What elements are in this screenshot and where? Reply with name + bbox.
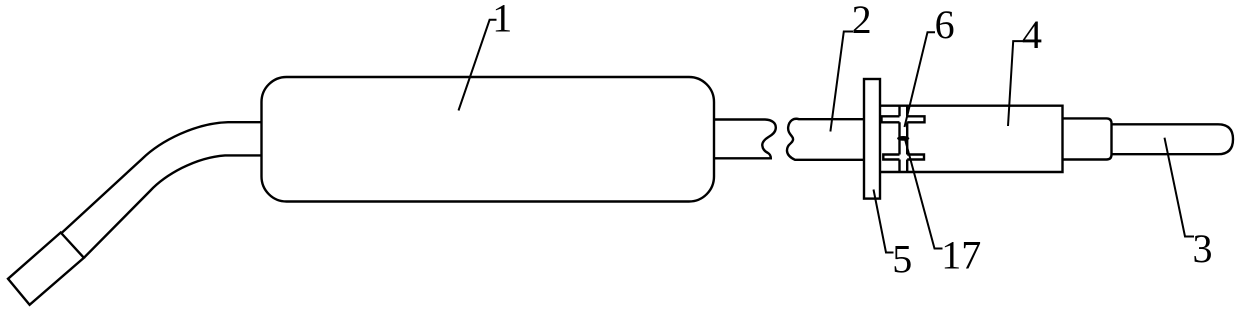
connector body 4 (880, 106, 1063, 172)
svg-text:3: 3 (1193, 226, 1213, 271)
step collar (1063, 118, 1112, 159)
nozzle tube upper line (61, 122, 262, 233)
plug tube 3 (1112, 124, 1234, 154)
leader line 6 (905, 32, 936, 127)
svg-text:1: 1 (492, 0, 512, 41)
cable left segment with break (714, 120, 776, 159)
svg-text:17: 17 (941, 233, 981, 278)
cable segment 2 with break (787, 119, 864, 160)
ball 17 (897, 136, 909, 141)
valve channel left line (898, 106, 900, 172)
leader line 4 (1008, 41, 1024, 126)
leader line 5 (874, 190, 894, 253)
svg-text:2: 2 (852, 0, 872, 42)
leader line 3 (1165, 138, 1195, 237)
lower slot bar (883, 155, 924, 160)
nozzle tube lower line (84, 155, 262, 257)
handle body 1 (262, 77, 715, 202)
leader line 1 (459, 20, 497, 111)
upper slot bar 6 (882, 116, 925, 122)
svg-text:4: 4 (1022, 12, 1042, 57)
leader line 2 (830, 32, 853, 132)
svg-text:5: 5 (892, 237, 912, 282)
flange 5 (864, 79, 880, 199)
svg-text:6: 6 (935, 2, 955, 47)
nozzle tip cap (8, 233, 84, 305)
valve channel right line (906, 106, 908, 172)
leader line 17 (905, 139, 943, 249)
